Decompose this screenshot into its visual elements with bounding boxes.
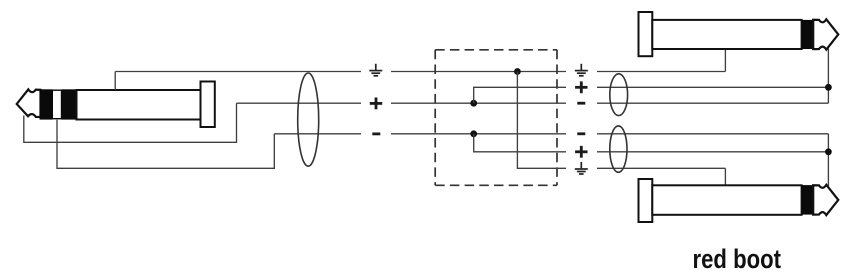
wire: J1 sleeve to shield line: [114, 72, 116, 91]
ground symbol (left, shield): [369, 64, 382, 76]
minus symbol (output 1): [577, 102, 585, 105]
node: hot split junction: [470, 100, 477, 107]
label: red boot: [693, 244, 782, 274]
mono jack plug J3 tip: [813, 185, 838, 215]
wire: J2 sleeve to shield line: [724, 49, 726, 72]
minus symbol (left, cold): [372, 132, 380, 135]
wire: J3 tip down-run: [827, 134, 829, 191]
plus symbol (left, hot): [370, 98, 382, 110]
stereo jack plug J1 insulator ring band 1: [40, 89, 53, 119]
ground symbol (output 1): [575, 64, 588, 76]
wire: output2 shield line: [597, 167, 725, 169]
wire: output2 minus line: [597, 133, 828, 135]
wire: shield line into junction box: [391, 71, 566, 73]
mono jack plug J3 insulator band: [802, 185, 814, 215]
wire: hot branch up to output1 plus: [474, 87, 566, 103]
wire: J2 tip down-run: [827, 49, 829, 104]
wire: cold branch down to output2 plus: [474, 134, 566, 152]
wire: cold (-) line left segment: [274, 133, 361, 135]
mono jack plug J2 sleeve body: [652, 20, 801, 49]
mono jack plug J3 boot: [639, 179, 653, 222]
stereo jack plug J1 ring contact gap: [52, 90, 61, 119]
mono jack plug J2 tip: [813, 19, 838, 49]
plus symbol (output 1): [575, 81, 587, 93]
mono jack plug J2 insulator band: [802, 20, 814, 49]
wire: output1 shield line: [597, 71, 725, 73]
wire: hot line into junction box: [391, 102, 566, 104]
stereo jack plug J1 boot: [201, 82, 215, 128]
plus symbol (output 2): [575, 146, 587, 158]
wire: output2 plus line: [597, 151, 828, 153]
stereo jack plug J1 insulator ring band 2: [62, 89, 77, 119]
node: shield split junction: [514, 68, 521, 75]
wire: cold line into junction box: [391, 133, 566, 135]
junction box (dashed): [435, 50, 557, 186]
cable shield ellipse E2 (output 1): [610, 74, 628, 116]
svg-text:red boot: red boot: [693, 244, 782, 274]
wire: shield branch down to output2 ground: [517, 72, 566, 169]
wire: output1 plus line: [597, 86, 828, 88]
wire: shield line left segment: [115, 71, 361, 73]
wire: J3 sleeve to shield line: [724, 168, 726, 185]
node: J2 tip junction on plus line: [825, 84, 832, 91]
mono jack plug J3 sleeve body: [652, 185, 801, 215]
ground symbol (output 2): [575, 162, 588, 174]
wire: output1 minus line: [597, 102, 828, 104]
cable shield ellipse E3 (output 2): [610, 126, 627, 172]
stereo jack plug J1 tip: [17, 89, 41, 117]
wire: J1 tip down-run: [24, 103, 237, 142]
minus symbol (output 2): [577, 132, 585, 135]
wire: hot (+) line left segment: [237, 102, 362, 104]
mono jack plug J2 boot: [639, 12, 653, 56]
stereo jack plug J1 sleeve body: [77, 90, 201, 120]
node: cold split junction: [470, 130, 477, 137]
wire: J1 ring down-run: [57, 120, 274, 169]
node: J3 tip junction on plus line: [825, 148, 832, 155]
cable shield ellipse E1: [298, 73, 319, 166]
